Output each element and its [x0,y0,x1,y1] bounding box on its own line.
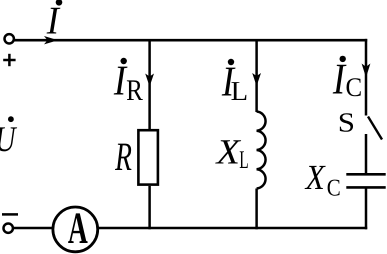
svg-text:L: L [231,76,248,107]
resistor R [138,130,158,184]
arrow current I on top wire [44,36,58,44]
wire R branch lower [148,186,151,229]
label U (phasor) [8,116,14,122]
wire L branch upper [255,40,258,112]
svg-text:C: C [345,72,362,102]
wire switch to capacitor [365,134,368,174]
wire R branch upper [148,40,151,130]
wire top horizontal [14,39,367,42]
svg-text:X: X [304,157,326,197]
plus sign [3,54,15,66]
svg-text:R: R [126,73,143,107]
svg-text:L: L [239,145,248,174]
svg-text:I: I [332,54,347,104]
svg-text:C: C [327,174,341,201]
capacitor XC plates [346,173,385,176]
switch S blade [368,117,382,140]
wire L branch lower [255,189,258,230]
arrow current IR [145,74,154,87]
svg-text:X: X [215,131,242,171]
label I (phasor) [56,0,63,6]
arrow current IL [252,73,261,86]
svg-text:U: U [0,118,18,159]
svg-text:A: A [68,203,88,253]
ammeter A [53,207,98,252]
wire bottom: terminal to ammeter [13,227,53,230]
svg-text:S: S [338,107,355,138]
svg-text:I: I [113,56,128,104]
svg-text:R: R [114,134,131,179]
label IC (phasor) [340,56,346,62]
svg-text:I: I [46,0,61,42]
label IL (phasor) [228,59,234,65]
minus sign [2,213,18,216]
terminal top-left (+) [5,34,14,43]
wire C branch lower [365,187,368,229]
wire C branch upper [365,39,368,116]
inductor XL coil [257,112,266,189]
label IR (phasor) [121,58,127,64]
wire bottom: ammeter to right corner [98,227,368,230]
arrow current IC [362,64,371,78]
terminal bottom-left (-) [4,224,13,233]
